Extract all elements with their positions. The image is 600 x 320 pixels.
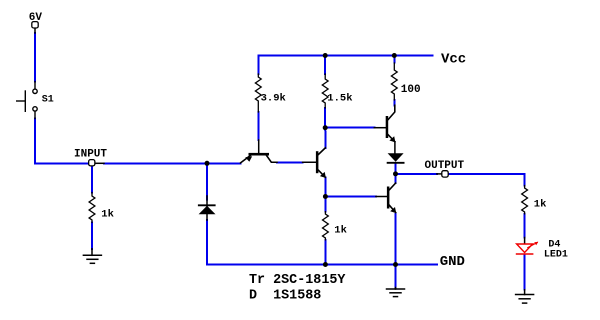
svg-text:1k: 1k (101, 208, 114, 220)
svg-text:Tr 2SC-1815Y: Tr 2SC-1815Y (249, 273, 346, 288)
wire Vcc to 100 resistor (393, 56, 395, 63)
svg-text:INPUT: INPUT (74, 149, 107, 161)
node OUTPUT (437, 173, 442, 175)
svg-text:1k: 1k (534, 198, 547, 210)
svg-text:D 1S1588: D 1S1588 (249, 288, 321, 303)
diode D1 1S1588 (199, 196, 216, 220)
junction node B (1.5k / Q3 base) (323, 125, 328, 130)
svg-text:3.9k: 3.9k (261, 93, 286, 105)
junction Q4 emitter / GND rail (393, 262, 398, 267)
wire LED cathode to right ground (524, 255, 526, 290)
wire Q4 emitter down to GND (395, 214, 397, 265)
wire 100 resistor to Q3 collector (393, 100, 395, 105)
junction Q2 emitter node (323, 194, 328, 199)
junction mid 1k / GND rail (323, 262, 328, 267)
wire Q2 emitter down (324, 178, 326, 197)
svg-text:1k: 1k (334, 225, 347, 237)
resistor R6 1k (right) (522, 186, 528, 214)
wire mid 1k top (324, 197, 326, 212)
wire S1 to INPUT node (35, 119, 89, 164)
wire left 1k top (91, 166, 93, 193)
resistor R3 1.5k (322, 74, 328, 108)
transistor Q4 (376, 183, 396, 213)
wire Q4 collector up to OUTPUT (395, 174, 397, 183)
wire Q2 emitter junction to Q4 base (325, 196, 376, 198)
wire Q1 collector to Q2 base (277, 161, 303, 163)
wire diode branch down (206, 163, 208, 199)
resistor R4 100 (391, 63, 397, 100)
diode D2 1S1588 (388, 153, 404, 163)
wire 1.5k top (324, 56, 326, 75)
ground (right) (516, 290, 534, 303)
wire OUTPUT node to right 1k (448, 174, 525, 186)
svg-text:S1: S1 (42, 94, 54, 105)
wire mid 1k bottom to GND rail (324, 240, 326, 265)
resistor R5 1k (middle) (323, 212, 329, 240)
junction Vcc/1.5k (323, 53, 328, 58)
wire node B to Q3 base (325, 127, 374, 129)
LED D4 (517, 238, 539, 255)
wire right 1k to LED anode (524, 214, 526, 238)
wire OUTPUT rail left of node (395, 173, 437, 175)
wire INPUT node to Q1 emitter (104, 162, 241, 164)
svg-text:GND: GND (440, 254, 465, 270)
resistor R1 1k (left) (89, 193, 95, 223)
svg-text:1.5k: 1.5k (327, 93, 352, 105)
wire diode to GND rail (207, 220, 437, 265)
junction Vcc/100 (392, 53, 397, 58)
switch S1 (17, 82, 38, 119)
wire 3.9k to Q1 base (257, 112, 259, 140)
svg-text:Vcc: Vcc (441, 51, 466, 67)
node INPUT (95, 162, 104, 164)
wire D2 cathode to OUTPUT node (394, 164, 396, 174)
svg-text:OUTPUT: OUTPUT (425, 160, 465, 172)
junction OUTPUT node (393, 171, 398, 176)
svg-text:LED1: LED1 (544, 249, 568, 260)
svg-text:6V: 6V (29, 12, 43, 24)
terminal 6V (34, 28, 36, 33)
svg-text:100: 100 (401, 84, 421, 96)
wire 1.5k bottom to Q2 collector (324, 108, 326, 148)
transistor Q2 (303, 148, 326, 178)
transistor Q3 (374, 105, 395, 153)
ground (middle) (387, 288, 405, 297)
wire GND rail to middle ground (395, 265, 397, 288)
wire 6V terminal to S1 (34, 33, 36, 82)
wire left 1k bottom to left ground (91, 223, 93, 249)
ground (left) (83, 249, 101, 263)
junction diode branch on INPUT wire (205, 161, 210, 166)
resistor R2 3.9k (255, 74, 261, 112)
wire Vcc rail (258, 56, 432, 75)
transistor Q1 (PNP rotated) (241, 140, 278, 163)
